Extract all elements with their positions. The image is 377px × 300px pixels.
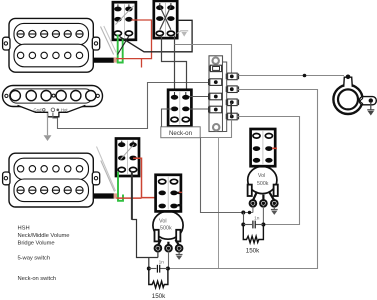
svg-text:150k: 150k — [152, 293, 166, 300]
right pot body — [248, 166, 277, 193]
svg-text:1n: 1n — [159, 259, 165, 265]
5-way switch lug R1 — [226, 73, 238, 80]
ground symbol jack — [367, 110, 374, 116]
svg-text:500k: 500k — [257, 181, 269, 187]
right pot side tabs — [248, 185, 278, 196]
wire SW3 internal diagonal — [121, 145, 134, 160]
wire green bridge pickup to SW3 — [118, 172, 123, 201]
ground symbol right of SW2 — [177, 31, 188, 37]
svg-text:Neck-on switch: Neck-on switch — [18, 276, 57, 282]
svg-text:500k: 500k — [160, 226, 172, 232]
5-way switch lug L1 — [209, 79, 222, 86]
ground symbol left pot — [176, 255, 183, 260]
svg-text:HSH: HSH — [18, 226, 30, 232]
wire 5-way R2 to left pot wiper net — [169, 90, 318, 269]
5-way switch lug R2 — [226, 86, 238, 93]
junction node left RC output — [166, 267, 170, 271]
capacitor 1n left — [149, 259, 168, 272]
right pot label — [257, 173, 269, 187]
output jack tip lug — [359, 96, 376, 105]
capacitor 1n right — [243, 215, 263, 228]
left pot lug 1 — [155, 245, 162, 252]
svg-text:1n: 1n — [254, 215, 260, 221]
left pot body — [153, 211, 183, 239]
resistor 150k right — [243, 225, 263, 255]
wire 5-way R3R4 down to Neck-on box line — [201, 120, 232, 138]
switch SW2 crossed DPDT — [154, 1, 177, 38]
neck humbucker pickup — [3, 18, 100, 72]
switch SW1 neck DPDT — [113, 2, 136, 40]
wire left pot wiper down — [168, 252, 170, 269]
5-way switch open square lug — [209, 65, 221, 71]
ground symbol right pot — [271, 210, 278, 215]
label box Neck-on — [161, 127, 200, 138]
svg-text:Hot: Hot — [61, 108, 68, 113]
5-way switch lug L3 — [209, 106, 222, 113]
junction dot right RC top — [241, 211, 251, 215]
wire red neck pickup to SW1/SW2 — [116, 20, 151, 68]
wire SW1 internal diagonal — [116, 6, 134, 25]
wire black SW3 to left pot RC node — [132, 171, 158, 269]
svg-text:150k: 150k — [246, 248, 260, 255]
wire Neck-on box to right pot lug1 — [201, 138, 253, 213]
switch Neck-on DPDT — [168, 90, 191, 127]
wire neck pickup shield leads — [101, 26, 117, 55]
svg-text:Vol: Vol — [159, 218, 167, 224]
svg-text:Gnd: Gnd — [34, 108, 43, 113]
wire single coil ground lead — [47, 113, 49, 135]
wire right pot lug1 down — [252, 207, 254, 213]
wire Neck-on mid-left stub — [162, 109, 173, 127]
output jack top lug — [344, 75, 353, 87]
left pot lug 3 — [176, 245, 183, 252]
left pot side tabs — [155, 230, 181, 242]
svg-text:Vol: Vol — [258, 173, 265, 179]
wire SW2 cross X — [160, 6, 171, 30]
wire SW2 bottom-left to Neck-on top-right — [162, 36, 187, 96]
junction node right RC output — [261, 223, 265, 227]
wire jumper 5-way R3 to R4 — [230, 102, 232, 116]
5-way switch lug R4 — [226, 113, 238, 120]
wire SW2 bottom-right to Neck-on top-left — [174, 36, 176, 96]
wire right RC left branch — [243, 213, 245, 225]
wire Neck-on right-mid to 5-way lug L3 — [189, 108, 210, 110]
wire single coil hot to 5-way lug L1 — [53, 83, 210, 129]
wire black SW1 bottom-right to cable tip — [118, 36, 130, 55]
svg-text:Neck-on: Neck-on — [169, 130, 193, 137]
bridge humbucker pickup — [3, 153, 100, 207]
wire bridge pickup shield leads — [97, 147, 116, 192]
wire neck pickup cable — [94, 57, 119, 62]
left pot label — [159, 218, 172, 231]
left pot legs — [158, 240, 179, 246]
right pot legs — [253, 192, 274, 201]
wire 5-way R1 to output jack — [239, 75, 345, 77]
resistor 150k left — [149, 269, 168, 300]
wire left pot lug1 to RC — [157, 252, 159, 258]
right pot push-pull switch — [251, 129, 276, 166]
ground symbol below single coil — [44, 135, 52, 141]
right pot lug 1 — [250, 200, 257, 207]
svg-text:5-way switch: 5-way switch — [18, 255, 51, 261]
wire to 5-way lug R1 — [175, 45, 232, 73]
wire right pot lug3 ground lead — [273, 207, 275, 210]
single coil Gnd Hot labels — [34, 108, 69, 113]
wire jack ground lead — [370, 103, 372, 110]
wire Neck-on right-top to 5-way lug L2 — [189, 96, 210, 98]
wire black SW1 to SW2 — [120, 20, 193, 52]
output jack body — [333, 85, 362, 114]
right pot lug 2 wiper — [260, 200, 267, 207]
junction dot on jack wire — [303, 74, 307, 78]
wire bridge pickup cable — [94, 193, 119, 198]
wire right pot wiper down — [262, 207, 264, 225]
junction node right RC input — [241, 223, 245, 227]
svg-text:Neck/Middle Volume: Neck/Middle Volume — [18, 233, 70, 239]
wire red bridge pickup to left pot switch — [116, 158, 155, 198]
caption text — [18, 226, 70, 283]
left pot switch stubs — [178, 192, 183, 205]
5-way switch lug R3 — [226, 99, 238, 106]
right pot switch red stub — [272, 147, 277, 149]
left pot lug 2 wiper — [165, 245, 172, 252]
wire green neck pickup to SW1 — [118, 35, 123, 63]
wire 5-way R4 to right pot wiper net — [237, 117, 299, 225]
right pot lug 3 — [271, 200, 278, 207]
wire 5-way area down to ground bus — [218, 138, 220, 269]
5-way switch lug L2 — [209, 93, 222, 100]
svg-text:Bridge Volume: Bridge Volume — [18, 240, 55, 246]
wire left pot lug3 ground lead — [178, 252, 180, 255]
switch SW3 bridge DPDT — [116, 139, 139, 177]
5-way switch body — [209, 56, 227, 132]
left pot push-pull switch — [156, 175, 181, 212]
junction node left RC input — [147, 267, 151, 271]
middle single coil pickup — [3, 86, 103, 117]
